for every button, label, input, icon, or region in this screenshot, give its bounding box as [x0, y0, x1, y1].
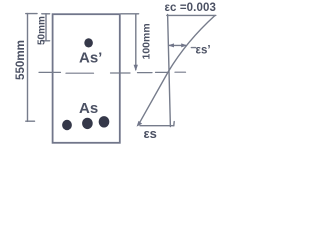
bottom strain base line (epsilon s) [140, 125, 174, 127]
arrowhead at bottom of strain diagonal [137, 121, 143, 127]
dimension line 100mm with extension from section corner [121, 14, 139, 71]
dimension line 550mm [26, 14, 37, 122]
dimension line 50mm [42, 14, 50, 41]
svg-text:50mm: 50mm [37, 16, 48, 45]
neutral axis dash-dot line [39, 72, 186, 73]
concrete section rectangle [53, 14, 120, 143]
rebar dot As' (compression steel) [84, 38, 93, 47]
svg-text:100mm: 100mm [141, 23, 153, 59]
rebar dots As (tension steel) [62, 120, 72, 130]
svg-text:εc =0.003: εc =0.003 [165, 2, 216, 14]
svg-text:εs: εs [144, 126, 157, 141]
svg-text:550mm: 550mm [14, 40, 27, 80]
svg-text:As: As [79, 100, 98, 117]
strain diagram main diagonal [140, 16, 215, 123]
strain diagram zero axis [168, 14, 171, 126]
strain diagram top fiber line [167, 14, 216, 16]
svg-text:As’: As’ [79, 50, 102, 67]
small tick at right end of base line [173, 122, 175, 126]
epsilon s' double arrow [168, 43, 196, 47]
svg-text:εs’: εs’ [196, 45, 211, 57]
